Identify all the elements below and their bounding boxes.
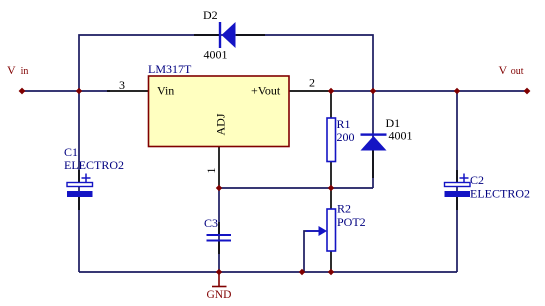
diode D2 pins (194, 34, 219, 36)
wire output net pin2 to Vout terminal (331, 90, 527, 92)
ground power port (218, 272, 220, 286)
svg-text:4001: 4001 (389, 129, 413, 143)
capacitor C3 pin stubs (218, 222, 220, 234)
capacitor C2 pin stubs (456, 170, 458, 183)
svg-text:R2: R2 (337, 202, 351, 216)
potentiometer R2 pins (330, 188, 332, 209)
diode D1 pins (372, 150, 374, 178)
junction ground C3 (216, 269, 222, 275)
junction Vin branch (76, 88, 82, 94)
capacitor C1 pin stubs (78, 170, 80, 183)
diode D1 symbol (361, 133, 387, 135)
junction R1 bottom (328, 185, 334, 191)
wire top bus from Vin branch to output branch (79, 35, 373, 272)
junction ground R2 (328, 269, 334, 275)
C2 plus sign (460, 177, 469, 179)
svg-text:ELECTRO2: ELECTRO2 (470, 187, 530, 201)
svg-text:200: 200 (337, 130, 355, 144)
svg-text:2: 2 (309, 76, 315, 90)
svg-text:LM317T: LM317T (148, 62, 192, 76)
wire bottom ground bus (79, 271, 457, 273)
potentiometer R2 wiper arrow (306, 230, 320, 232)
svg-text:C2: C2 (470, 173, 484, 187)
svg-text:V: V (7, 63, 16, 77)
svg-text:GND: GND (207, 289, 232, 301)
junction C2 top (454, 88, 460, 94)
op regulator U1 LM317T body (149, 76, 290, 147)
C1 plus sign (82, 177, 91, 179)
resistor R1 pins (330, 91, 332, 118)
junction Vout terminal (524, 88, 531, 95)
junction R1 top (328, 88, 334, 94)
svg-text:4001: 4001 (204, 48, 228, 62)
capacitor C2 symbol (445, 183, 471, 187)
wire ADJ horizontal net (219, 187, 373, 189)
wire R2 wiper to ground bus (304, 231, 321, 272)
junction D1 top (370, 88, 376, 94)
svg-text:in: in (21, 66, 29, 77)
svg-text:out: out (511, 66, 524, 77)
diode D2 symbol (219, 22, 221, 48)
svg-text:+Vout: +Vout (251, 84, 281, 98)
capacitor C3 symbol (207, 234, 232, 236)
svg-text:Vin: Vin (157, 84, 174, 98)
svg-text:ELECTRO2: ELECTRO2 (64, 158, 124, 172)
pin 1 (ADJ) of U1 (218, 146, 220, 188)
svg-text:V: V (499, 63, 508, 77)
pin 2 of U1 (289, 90, 331, 92)
svg-text:POT2: POT2 (337, 215, 366, 229)
svg-text:D2: D2 (203, 8, 218, 22)
junction Vin terminal (19, 88, 26, 95)
junction ground wiper (299, 269, 305, 275)
wire C3 branch vertical (218, 188, 220, 272)
resistor R1 body (327, 118, 336, 162)
wire D1 branch vertical (372, 91, 374, 188)
svg-text:C3: C3 (204, 216, 218, 230)
svg-text:R1: R1 (337, 117, 351, 131)
potentiometer R2 body (327, 209, 336, 251)
svg-text:1: 1 (204, 168, 218, 174)
svg-text:3: 3 (119, 78, 125, 92)
wire Vin terminal to pin 3 (22, 90, 110, 92)
capacitor C1 symbol (67, 183, 93, 187)
svg-text:ADJ: ADJ (214, 113, 228, 135)
svg-text:C1: C1 (64, 145, 78, 159)
pin 3 of U1 (107, 90, 149, 92)
junction ADJ node (216, 185, 222, 191)
wire C2 branch vertical (456, 91, 458, 272)
